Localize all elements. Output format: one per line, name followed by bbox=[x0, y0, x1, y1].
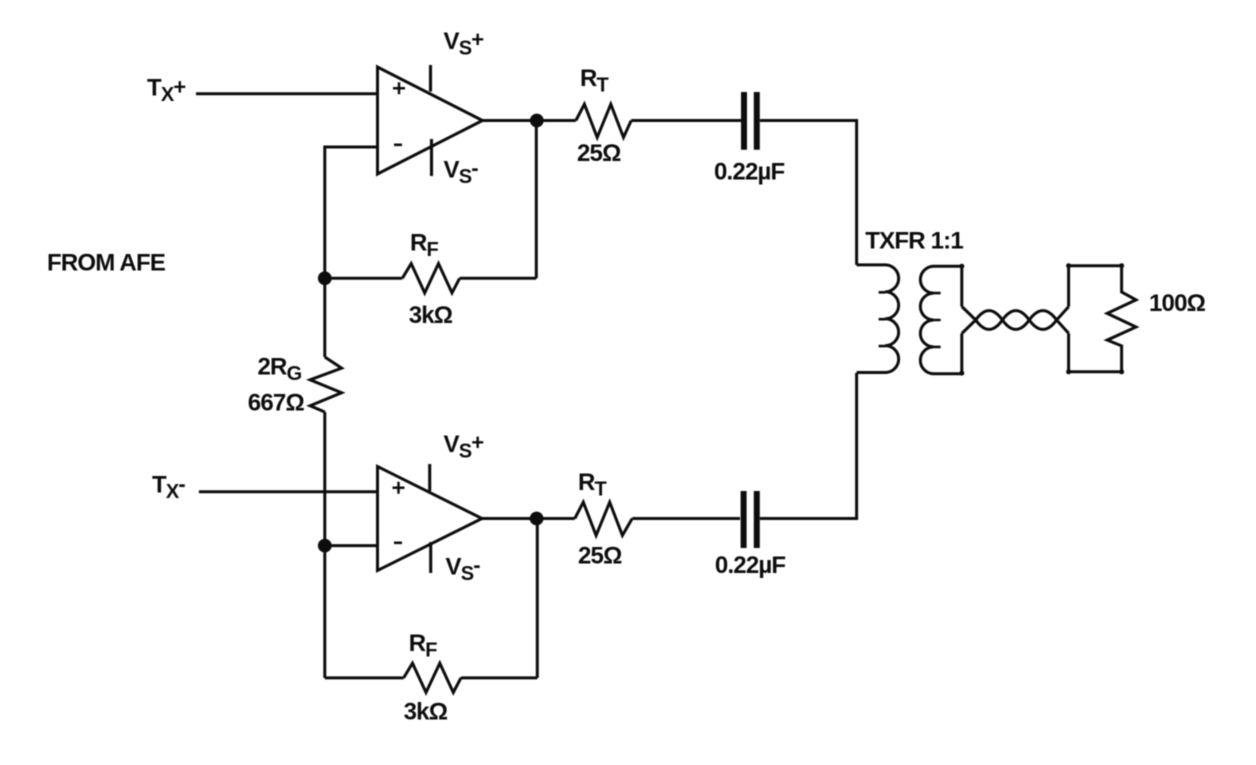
U2 VS+ power pin bbox=[428, 464, 431, 491]
node junction dot summing node A bbox=[318, 271, 332, 285]
resistor 2RG 667 ohm (vertical zigzag) bbox=[310, 357, 342, 412]
wire C2 to transformer bottom corner bbox=[760, 373, 857, 519]
wire TX- input to U2 + bbox=[199, 490, 378, 493]
node dot secondary bottom corner bbox=[959, 371, 964, 376]
svg-text:RT: RT bbox=[580, 65, 609, 97]
node dot load top-right corner bbox=[1119, 263, 1124, 268]
wire node B to U2 inverting input bbox=[325, 544, 378, 547]
wire load left vertical top bbox=[1069, 266, 1122, 307]
wire load left vertical bottom bbox=[1069, 333, 1122, 372]
node dot load top-left corner bbox=[1066, 263, 1071, 268]
node dot load bottom-right corner bbox=[1119, 369, 1124, 374]
svg-text:667Ω: 667Ω bbox=[248, 389, 305, 416]
svg-text:25Ω: 25Ω bbox=[578, 542, 622, 569]
resistor RF1 3k (zigzag) bbox=[402, 264, 459, 293]
capacitor C1 0.22uF plates bbox=[744, 92, 757, 150]
svg-text:100Ω: 100Ω bbox=[1149, 290, 1206, 317]
svg-text:VS-: VS- bbox=[444, 156, 479, 189]
op-amp U1 (top) bbox=[378, 67, 483, 174]
capacitor C2 0.22uF plates bbox=[744, 491, 757, 548]
wire U1 feedback vertical bbox=[535, 121, 538, 279]
node dot secondary top corner bbox=[959, 264, 964, 269]
svg-text:VS-: VS- bbox=[446, 553, 481, 586]
svg-text:0.22µF: 0.22µF bbox=[714, 158, 785, 185]
T1 secondary cusp ticks bbox=[934, 293, 941, 347]
U2 VS- power pin bbox=[429, 542, 432, 573]
svg-text:25Ω: 25Ω bbox=[577, 140, 621, 167]
op-amp U2 (bottom) bbox=[378, 467, 483, 571]
twisted pair wire B bbox=[962, 307, 1069, 334]
node junction dot B (U2 inverting input) bbox=[318, 539, 332, 553]
wire RT2 to C2 bbox=[632, 517, 740, 520]
U2 minus sign bbox=[394, 541, 402, 544]
U1 plus sign bbox=[393, 82, 405, 94]
wire U1 output to RT1 bbox=[483, 119, 576, 122]
wire secondary right vertical top bbox=[960, 266, 963, 306]
wire RF2 to left vertical bbox=[325, 676, 404, 679]
node dot load bottom-left corner bbox=[1066, 369, 1071, 374]
resistor RT2 25 ohm (zigzag) bbox=[575, 502, 632, 535]
node junction dot U1 output bbox=[530, 114, 544, 128]
svg-text:RT: RT bbox=[578, 469, 607, 501]
svg-text:RF: RF bbox=[410, 230, 439, 262]
transformer T1 secondary winding bbox=[920, 266, 961, 374]
wire node A up to U1 inverting input bbox=[325, 147, 378, 278]
T1 primary cusp ticks bbox=[879, 292, 886, 346]
svg-text:2RG: 2RG bbox=[258, 354, 302, 386]
svg-text:0.22µF: 0.22µF bbox=[715, 552, 786, 579]
wire RT1 to C1 bbox=[631, 119, 741, 122]
node junction dot U2 output bbox=[530, 512, 544, 526]
svg-text:TXFR 1:1: TXFR 1:1 bbox=[865, 228, 963, 255]
svg-text:FROM AFE: FROM AFE bbox=[47, 250, 166, 277]
svg-text:3kΩ: 3kΩ bbox=[404, 699, 448, 726]
transformer T1 primary winding bbox=[857, 265, 899, 373]
svg-text:VS+: VS+ bbox=[444, 430, 484, 463]
svg-text:TX-: TX- bbox=[152, 472, 185, 504]
resistor RF2 3k (zigzag) bbox=[404, 663, 461, 692]
wire C1 to transformer top corner bbox=[760, 121, 857, 265]
wire TX+ input to U1 + bbox=[196, 92, 378, 95]
wire RF1 to summing node bbox=[325, 277, 403, 280]
wire node A down to 2RG bbox=[323, 278, 326, 357]
svg-text:TX+: TX+ bbox=[147, 75, 185, 107]
resistor RL 100 ohm (vertical zigzag) bbox=[1107, 266, 1136, 372]
svg-text:3kΩ: 3kΩ bbox=[409, 302, 453, 329]
twisted pair wire A bbox=[962, 307, 1069, 334]
svg-text:VS+: VS+ bbox=[444, 27, 484, 60]
wire feedback horizontal to RF2 bbox=[461, 676, 537, 679]
wire U2 feedback vertical bbox=[536, 519, 539, 678]
U1 VS+ power pin bbox=[429, 65, 432, 92]
U1 minus sign bbox=[394, 144, 402, 147]
wire U2 output to RT2 bbox=[482, 517, 575, 520]
resistor RT1 25 ohm (zigzag) bbox=[576, 104, 631, 137]
wire 2RG down through node B to RF2 corner bbox=[323, 412, 326, 678]
wire secondary right vertical bottom bbox=[960, 334, 963, 374]
U2 plus sign bbox=[393, 482, 405, 494]
U1 VS- power pin bbox=[430, 139, 433, 176]
svg-text:RF: RF bbox=[409, 630, 438, 662]
wire feedback horizontal to RF1 bbox=[460, 277, 537, 280]
